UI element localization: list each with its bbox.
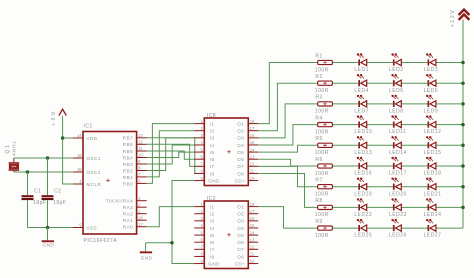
wire +12V bus	[462, 20, 464, 229]
op-amp-style IC1 PIC16F627A microcontroller	[73, 124, 147, 245]
svg-text:R9: R9	[315, 219, 322, 225]
wire IC2 O1 to row 9	[258, 207, 317, 229]
svg-text:LED4: LED4	[354, 88, 369, 94]
svg-text:LED2: LED2	[389, 67, 404, 73]
svg-text:LED16: LED16	[354, 171, 372, 177]
svg-text:R6: R6	[315, 157, 322, 163]
svg-text:RB4: RB4	[123, 155, 133, 160]
svg-text:O6: O6	[237, 157, 244, 162]
LED LED20	[389, 178, 407, 198]
svg-text:LED22: LED22	[354, 212, 372, 218]
LED LED5	[389, 74, 404, 94]
wire net RB5 to IC8 I6	[147, 151, 195, 159]
svg-text:12: 12	[138, 140, 143, 145]
LED LED13	[354, 136, 372, 156]
svg-text:13: 13	[138, 133, 143, 138]
svg-text:O5: O5	[237, 150, 244, 155]
svg-text:+12V: +12V	[450, 9, 456, 28]
resistor R2 100R	[315, 74, 333, 94]
wire row 6	[332, 165, 463, 167]
svg-text:LED6: LED6	[424, 88, 439, 94]
wire row 5	[332, 144, 463, 146]
LED LED21	[424, 178, 442, 198]
LED LED14	[389, 136, 407, 156]
LED LED17	[389, 157, 407, 177]
svg-text:RB5: RB5	[123, 149, 133, 154]
svg-text:LED19: LED19	[354, 191, 372, 197]
svg-text:RA0: RA0	[123, 225, 133, 230]
svg-text:GND: GND	[141, 256, 153, 261]
svg-text:I5: I5	[210, 150, 215, 155]
junction row 4 on +12V bus	[461, 123, 465, 127]
junction OSC2/C1	[26, 170, 30, 174]
wire OSC1 net	[14, 157, 73, 159]
svg-text:LED20: LED20	[389, 191, 407, 197]
svg-text:LED1: LED1	[354, 67, 369, 73]
wire IC8 O4 to row 4	[258, 125, 317, 145]
wire IC8 O8 to row 8	[258, 173, 317, 207]
ground GND2	[140, 243, 153, 261]
svg-text:RA3: RA3	[123, 205, 133, 210]
svg-text:12: 12	[250, 245, 255, 250]
wire net RB0 to IC8 I1	[147, 124, 195, 184]
svg-text:14: 14	[250, 147, 255, 152]
LED LED1	[354, 53, 369, 73]
svg-text:O3: O3	[237, 136, 244, 141]
svg-text:18: 18	[138, 215, 143, 220]
wire GND net to VSS pin 5	[28, 227, 74, 229]
svg-text:LED5: LED5	[389, 88, 404, 94]
svg-text:R8: R8	[315, 198, 322, 204]
svg-text:OSC2: OSC2	[87, 170, 101, 175]
svg-text:RB2: RB2	[123, 168, 133, 173]
svg-text:LED8: LED8	[389, 109, 404, 115]
LED LED15	[424, 136, 442, 156]
svg-text:R4: R4	[315, 115, 322, 121]
IC2 driver	[194, 196, 258, 269]
LED LED26	[389, 219, 407, 239]
svg-text:15: 15	[250, 223, 255, 228]
junction OSC1/C2	[46, 156, 50, 160]
svg-text:100R: 100R	[315, 109, 329, 115]
svg-text:RA2: RA2	[123, 212, 133, 217]
LED LED16	[354, 157, 372, 177]
LED LED22	[354, 198, 372, 218]
svg-text:LED9: LED9	[424, 109, 439, 115]
svg-text:100R: 100R	[315, 192, 329, 198]
svg-text:LED11: LED11	[389, 129, 406, 135]
svg-text:C2: C2	[54, 188, 61, 194]
svg-text:10: 10	[250, 259, 255, 264]
svg-text:O5: O5	[237, 233, 244, 238]
capacitor C1 18pF	[22, 172, 47, 228]
svg-text:GND: GND	[208, 261, 220, 266]
IC8 driver	[194, 113, 258, 186]
LED LED25	[354, 219, 372, 239]
svg-text:16: 16	[250, 216, 255, 221]
wire net RB6 to IC8 I7	[147, 144, 195, 166]
capacitor C2 18pF	[42, 158, 67, 228]
svg-text:I1: I1	[210, 205, 215, 210]
svg-text:O8: O8	[237, 171, 244, 176]
svg-text:12: 12	[250, 162, 255, 167]
svg-text:R1: R1	[315, 53, 322, 59]
svg-text:I2: I2	[210, 212, 215, 217]
svg-text:I1: I1	[210, 122, 215, 127]
svg-text:O2: O2	[237, 212, 244, 217]
svg-text:LED15: LED15	[424, 150, 442, 156]
svg-text:LED3: LED3	[424, 67, 439, 73]
svg-text:IC2: IC2	[207, 196, 216, 202]
svg-text:O8: O8	[237, 254, 244, 259]
wire +5V net to VDD pin 14	[63, 137, 73, 139]
svg-text:RB6: RB6	[123, 142, 133, 147]
LED LED24	[424, 198, 442, 218]
svg-text:LED13: LED13	[354, 150, 372, 156]
svg-text:10: 10	[250, 176, 255, 181]
svg-text:LED12: LED12	[424, 129, 442, 135]
resistor R5 100R	[315, 136, 333, 156]
svg-text:16: 16	[250, 133, 255, 138]
resistor R3 100R	[315, 95, 333, 115]
wire OSC2 net	[14, 171, 73, 173]
svg-text:LED14: LED14	[389, 150, 407, 156]
svg-text:LED24: LED24	[424, 212, 442, 218]
svg-text:LED18: LED18	[424, 171, 442, 177]
svg-text:I3: I3	[210, 136, 215, 141]
svg-text:LED25: LED25	[354, 233, 372, 239]
svg-text:R3: R3	[315, 95, 322, 101]
svg-text:I6: I6	[210, 240, 215, 245]
junction row 7 on +12V bus	[461, 185, 465, 189]
junction row 8 on +12V bus	[461, 206, 465, 210]
resistor R8 100R	[315, 198, 333, 218]
svg-text:LED7: LED7	[354, 109, 369, 115]
svg-text:14: 14	[250, 230, 255, 235]
svg-text:+5V: +5V	[51, 109, 57, 125]
wire row 2	[332, 82, 463, 84]
svg-text:I6: I6	[210, 157, 215, 162]
svg-text:18pF: 18pF	[33, 200, 46, 206]
svg-text:IC1: IC1	[84, 124, 93, 130]
svg-text:GND: GND	[43, 243, 55, 248]
svg-text:4MHz: 4MHz	[11, 140, 16, 156]
svg-text:18pF: 18pF	[53, 200, 66, 206]
svg-text:LED23: LED23	[389, 212, 407, 218]
resistor R6 100R	[315, 157, 333, 177]
LED LED23	[389, 198, 407, 218]
resistor R9 100R	[315, 219, 333, 239]
ground GND1	[42, 228, 55, 248]
+5V supply symbol P1	[51, 109, 67, 126]
svg-text:IC8: IC8	[207, 113, 216, 119]
svg-text:100R: 100R	[315, 233, 329, 239]
svg-text:I7: I7	[210, 247, 215, 252]
wire GND net IC8 pin9 to IC2 pin9	[172, 181, 194, 264]
wire IC8 O6 to row 6	[258, 159, 317, 166]
svg-text:I8: I8	[210, 254, 215, 259]
svg-text:I8: I8	[210, 171, 215, 176]
junction row 3 on +12V bus	[461, 102, 465, 106]
junction GND/C2	[46, 226, 50, 230]
LED LED11	[389, 115, 406, 135]
svg-text:VDD: VDD	[87, 136, 98, 141]
svg-text:11: 11	[138, 146, 143, 151]
svg-text:17: 17	[250, 209, 255, 214]
svg-text:13: 13	[250, 237, 255, 242]
wire IC8 O1 to row 1	[258, 63, 317, 124]
svg-text:T0CKI/RA4: T0CKI/RA4	[106, 199, 133, 204]
wire IC8 O3 to row 3	[258, 104, 317, 138]
svg-text:13: 13	[250, 154, 255, 159]
svg-text:17: 17	[250, 126, 255, 131]
+12V supply symbol P2	[450, 9, 469, 28]
LED LED12	[424, 115, 442, 135]
svg-text:PIC16F627A: PIC16F627A	[84, 238, 118, 244]
junction GND2	[170, 241, 174, 245]
svg-text:R2: R2	[315, 74, 322, 80]
svg-text:16: 16	[77, 153, 82, 158]
svg-text:14: 14	[77, 133, 82, 138]
LED LED4	[354, 74, 369, 94]
svg-text:17: 17	[138, 222, 143, 227]
wire row 9	[332, 227, 463, 229]
wire net RB4 to IC8 I5	[147, 152, 195, 157]
svg-text:O2: O2	[237, 129, 244, 134]
LED LED2	[389, 53, 404, 73]
svg-text:O7: O7	[237, 164, 244, 169]
svg-text:18: 18	[250, 119, 255, 124]
svg-text:O4: O4	[237, 226, 244, 231]
resistor R7 100R	[315, 178, 333, 198]
wire row 7	[332, 186, 463, 188]
svg-text:100R: 100R	[315, 150, 329, 156]
junction row 1 on +12V bus	[461, 61, 465, 65]
svg-text:11: 11	[250, 252, 255, 257]
svg-text:MCLR: MCLR	[87, 182, 102, 187]
svg-text:LED10: LED10	[354, 129, 372, 135]
svg-text:O1: O1	[237, 205, 244, 210]
svg-text:RA1: RA1	[123, 218, 133, 223]
svg-text:15: 15	[77, 167, 82, 172]
resistor R4 100R	[315, 115, 333, 135]
wire net RB2 to IC8 I3	[147, 138, 195, 171]
svg-text:I3: I3	[210, 219, 215, 224]
svg-text:10: 10	[138, 153, 143, 158]
svg-text:I2: I2	[210, 129, 215, 134]
svg-text:RB3: RB3	[123, 162, 133, 167]
svg-text:CD+: CD+	[235, 261, 246, 266]
svg-text:RB1: RB1	[123, 175, 133, 180]
svg-text:100R: 100R	[315, 212, 329, 218]
svg-text:LED21: LED21	[424, 191, 442, 197]
wire row 4	[332, 124, 463, 126]
svg-text:18: 18	[250, 202, 255, 207]
svg-text:100R: 100R	[315, 171, 329, 177]
svg-text:100R: 100R	[315, 129, 329, 135]
crystal Q1 4MHz	[5, 140, 19, 172]
wire +5V net to MCLR pin 4	[63, 116, 73, 184]
svg-text:100R: 100R	[315, 67, 329, 73]
LED LED10	[354, 115, 372, 135]
wire row 3	[332, 103, 463, 105]
wire row 8	[332, 206, 463, 208]
svg-text:11: 11	[250, 169, 255, 174]
wire net RB7 to IC8 I8	[147, 138, 195, 174]
svg-text:LED27: LED27	[424, 233, 442, 239]
svg-text:C1: C1	[34, 188, 41, 194]
junction +5V/VDD	[61, 136, 65, 140]
svg-text:GND: GND	[208, 178, 220, 183]
svg-text:R5: R5	[315, 136, 322, 142]
junction row 6 on +12V bus	[461, 164, 465, 168]
LED LED9	[424, 95, 439, 115]
svg-text:RB7: RB7	[123, 136, 133, 141]
LED LED19	[354, 178, 372, 198]
svg-text:100R: 100R	[315, 88, 329, 94]
wire net RB3 to IC8 I4	[147, 145, 195, 164]
wire GND branch	[146, 242, 172, 244]
svg-text:O7: O7	[237, 247, 244, 252]
svg-text:RB0: RB0	[123, 181, 133, 186]
svg-text:15: 15	[250, 140, 255, 145]
LED LED3	[424, 53, 439, 73]
wire IC8 O7 to row 7	[258, 166, 317, 186]
LED LED27	[424, 219, 442, 239]
LED LED6	[424, 74, 439, 94]
svg-text:I7: I7	[210, 164, 215, 169]
wire IC8 O5 to row 5	[258, 145, 317, 152]
wire net RB1 to IC8 I2	[147, 131, 195, 177]
svg-text:O6: O6	[237, 240, 244, 245]
LED LED7	[354, 95, 369, 115]
svg-text:OSC1: OSC1	[87, 156, 101, 161]
svg-text:CD+: CD+	[235, 178, 246, 183]
resistor R1 100R	[315, 53, 333, 73]
svg-text:I4: I4	[210, 226, 215, 231]
junction row 2 on +12V bus	[461, 81, 465, 85]
LED LED8	[389, 95, 404, 115]
svg-text:I5: I5	[210, 233, 215, 238]
wire IC8 O2 to row 2	[258, 83, 317, 131]
svg-text:O3: O3	[237, 219, 244, 224]
wire row 1	[332, 62, 463, 64]
svg-text:LED17: LED17	[389, 171, 407, 177]
svg-text:I4: I4	[210, 143, 215, 148]
junction row 5 on +12V bus	[461, 144, 465, 148]
svg-text:LED26: LED26	[389, 233, 407, 239]
svg-text:VSS: VSS	[87, 225, 98, 230]
LED LED18	[424, 157, 442, 177]
svg-text:R7: R7	[315, 178, 322, 184]
wire net RA0 to IC2 I1	[147, 207, 195, 227]
svg-text:Q1: Q1	[5, 143, 11, 153]
svg-text:O4: O4	[237, 143, 244, 148]
svg-text:O1: O1	[237, 122, 244, 127]
